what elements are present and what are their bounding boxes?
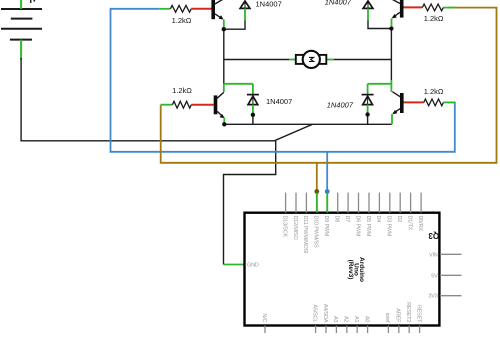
svg-text:D0/RX: D0/RX xyxy=(417,216,423,232)
svg-text:D12/MISO: D12/MISO xyxy=(292,216,298,241)
svg-text:D1/TX: D1/TX xyxy=(406,216,412,231)
svg-text:D7: D7 xyxy=(344,216,350,223)
svg-text:1.2kΩ: 1.2kΩ xyxy=(172,16,192,25)
svg-text:D13/SCK: D13/SCK xyxy=(281,216,287,238)
svg-text:3V3: 3V3 xyxy=(428,294,437,300)
svg-text:1N4007: 1N4007 xyxy=(256,0,282,9)
svg-text:5V: 5V xyxy=(431,273,438,279)
svg-text:1N4007: 1N4007 xyxy=(325,0,352,6)
svg-text:D2: D2 xyxy=(396,216,402,223)
svg-text:(Rev3): (Rev3) xyxy=(347,260,354,280)
svg-text:N/C: N/C xyxy=(261,313,267,322)
svg-text:RESET: RESET xyxy=(415,305,421,323)
svg-text:D5 PWM: D5 PWM xyxy=(365,216,371,237)
svg-text:1.2kΩ: 1.2kΩ xyxy=(424,87,444,96)
svg-text:A4/SDA: A4/SDA xyxy=(322,304,328,323)
svg-text:D3 PWM: D3 PWM xyxy=(386,216,392,237)
svg-text:D11 PWM/MOSI: D11 PWM/MOSI xyxy=(302,216,308,255)
svg-text:RESET2: RESET2 xyxy=(405,302,411,322)
svg-text:1N4007: 1N4007 xyxy=(266,97,292,106)
svg-text:D6 PWM: D6 PWM xyxy=(354,216,360,237)
svg-text:D4: D4 xyxy=(375,216,381,223)
svg-text:A0: A0 xyxy=(363,316,369,322)
svg-text:1N4007: 1N4007 xyxy=(327,101,354,110)
svg-text:1.2kΩ: 1.2kΩ xyxy=(172,86,192,95)
svg-text:D10 PWM/SS: D10 PWM/SS xyxy=(313,216,319,248)
svg-text:D8: D8 xyxy=(334,216,340,223)
svg-text:ioref: ioref xyxy=(384,313,390,323)
svg-text:A3: A3 xyxy=(332,316,338,322)
svg-text:A1: A1 xyxy=(353,316,359,322)
svg-text:Q3: Q3 xyxy=(428,231,439,240)
svg-text:A5/SCL: A5/SCL xyxy=(311,305,317,323)
svg-text:D9 PWM: D9 PWM xyxy=(323,216,329,237)
svg-text:1.2kΩ: 1.2kΩ xyxy=(424,14,444,23)
svg-text:VIN: VIN xyxy=(429,252,438,258)
svg-text:AREF: AREF xyxy=(395,308,401,323)
svg-text:A2: A2 xyxy=(343,316,349,322)
svg-text:GND: GND xyxy=(247,263,259,269)
